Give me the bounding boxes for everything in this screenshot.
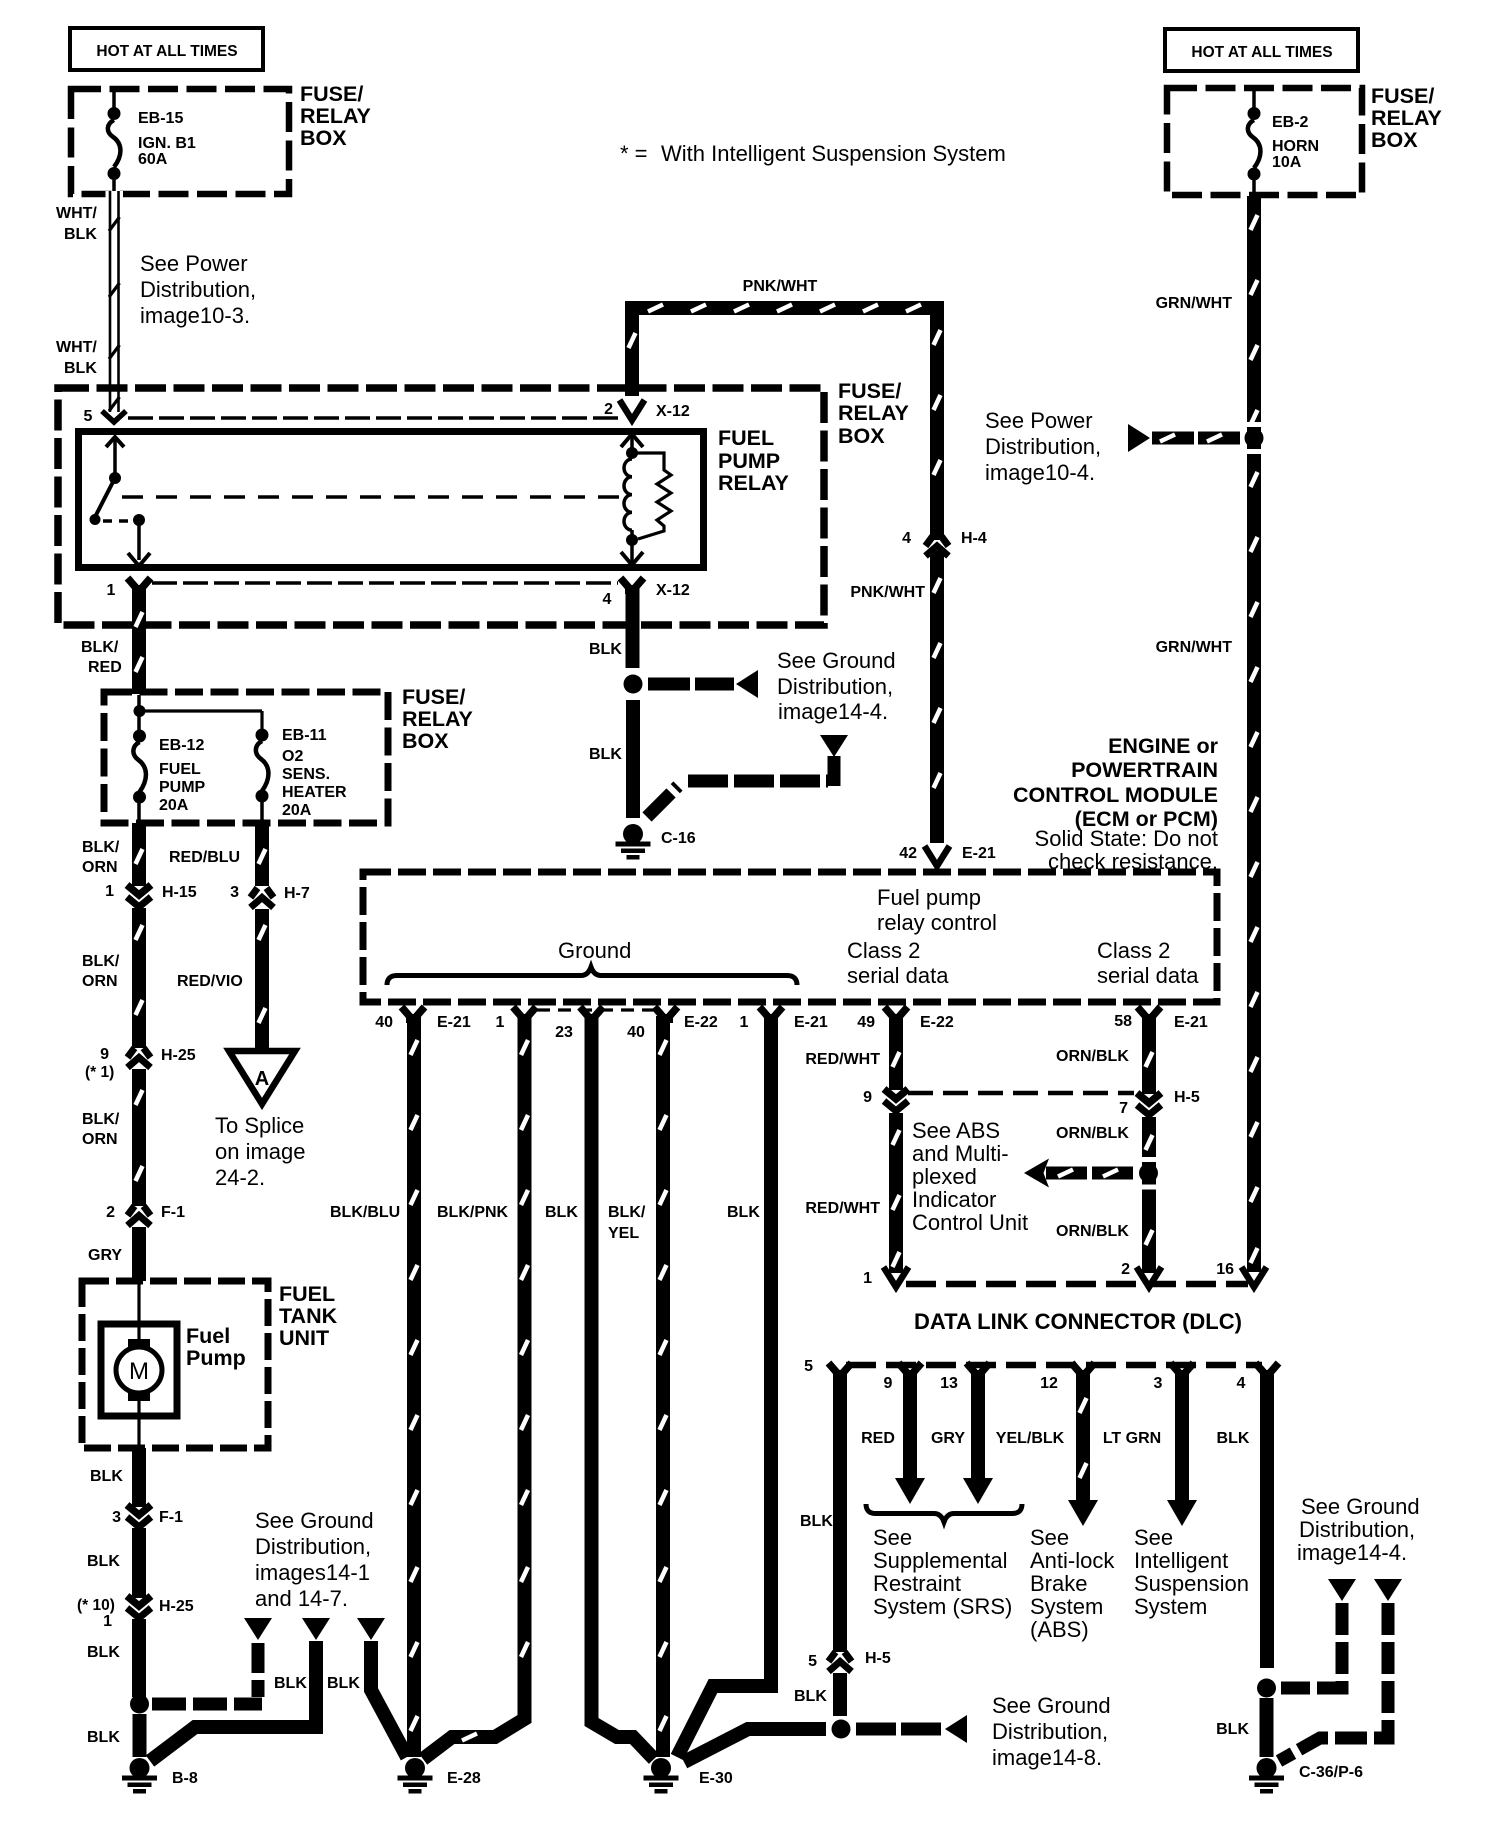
wire GRY (F-1 to fuel tank unit): [132, 1227, 146, 1281]
svg-text:Indicator: Indicator: [912, 1187, 996, 1212]
svg-text:F-1: F-1: [159, 1509, 183, 1526]
connector pin 1 (relay box exit): [128, 578, 138, 589]
fuel tank unit box (dashed): [82, 1281, 268, 1448]
connector F-1 pin 3 (inline, flow down): [127, 1505, 151, 1515]
svg-text:HOT AT ALL TIMES: HOT AT ALL TIMES: [96, 43, 237, 60]
connector pin 2 X-12 (relay box entry): [620, 400, 645, 420]
svg-text:GRY: GRY: [88, 1247, 122, 1264]
svg-text:(* 10): (* 10): [77, 1597, 115, 1614]
svg-text:FUEL: FUEL: [718, 426, 774, 450]
svg-text:PUMP: PUMP: [159, 779, 206, 796]
connector H-5 pin 9 (inline, flow down): [884, 1089, 908, 1099]
svg-text:23: 23: [555, 1024, 573, 1041]
fuse EB-11 O2 SENS. HEATER 20A: [256, 729, 269, 742]
junction node above B-8: [130, 1695, 149, 1714]
svg-text:4: 4: [1237, 1375, 1246, 1392]
svg-text:GRN/WHT: GRN/WHT: [1156, 295, 1233, 312]
svg-text:HOT AT ALL TIMES: HOT AT ALL TIMES: [1191, 44, 1332, 61]
connector F-1 pin 2 (inline, flow up): [128, 1206, 135, 1216]
svg-text:and 14-7.: and 14-7.: [255, 1586, 348, 1611]
svg-text:2: 2: [106, 1204, 115, 1221]
svg-text:DATA LINK CONNECTOR (DLC): DATA LINK CONNECTOR (DLC): [914, 1309, 1242, 1334]
svg-text:IGN. B1: IGN. B1: [138, 135, 196, 152]
svg-text:H-5: H-5: [1174, 1089, 1200, 1106]
svg-text:RED: RED: [861, 1430, 895, 1447]
wire ORN/BLK (ECM pin 58 to H-5): [1142, 1016, 1156, 1094]
svg-text:WHT/: WHT/: [56, 339, 97, 356]
svg-text:Distribution,: Distribution,: [1299, 1517, 1415, 1542]
svg-text:serial data: serial data: [847, 963, 949, 988]
svg-text:BLK: BLK: [545, 1204, 578, 1221]
wire BLK (DLC pin 4 down): [1260, 1374, 1274, 1668]
svg-text:BLK: BLK: [274, 1675, 307, 1692]
svg-text:BLK: BLK: [64, 360, 97, 377]
svg-text:EB-15: EB-15: [138, 110, 183, 127]
connector DLC pin 16 (entry): [1242, 1267, 1267, 1287]
svg-text:relay control: relay control: [877, 910, 997, 935]
svg-text:2: 2: [604, 401, 613, 418]
connector pin 40 E-22 (ECM exit): [655, 1007, 665, 1018]
wire BLK/PNK (ECM pin 1 to E-28): [423, 1016, 525, 1759]
svg-text:E-22: E-22: [684, 1014, 718, 1031]
junction node above C-36/P-6: [1257, 1679, 1276, 1698]
svg-text:See Ground: See Ground: [992, 1693, 1111, 1718]
fuse/relay box (EB-12/EB-11, dashed): [104, 692, 388, 823]
ground B-8: [130, 1758, 150, 1778]
wire WHT/BLK (hollow, fuse EB-15 to relay pin 5): [106, 191, 124, 412]
svg-text:Fuel pump: Fuel pump: [877, 885, 981, 910]
fuse EB-12 FUEL PUMP 20A: [137, 711, 141, 735]
svg-text:image10-3.: image10-3.: [140, 303, 250, 328]
svg-text:H-25: H-25: [161, 1047, 196, 1064]
svg-text:on image: on image: [215, 1139, 306, 1164]
svg-text:58: 58: [1114, 1013, 1132, 1030]
svg-text:check resistance.: check resistance.: [1048, 849, 1218, 874]
wire triangle2 to B-8: [150, 1641, 316, 1761]
svg-text:FUEL: FUEL: [279, 1282, 335, 1306]
svg-text:Distribution,: Distribution,: [985, 434, 1101, 459]
svg-text:BLK: BLK: [589, 641, 622, 658]
wire tap to See Power Distribution (hatched): [1152, 432, 1243, 445]
svg-text:5: 5: [808, 1653, 817, 1670]
svg-text:C-16: C-16: [661, 830, 696, 847]
svg-text:BLK/: BLK/: [81, 639, 119, 656]
svg-text:B-8: B-8: [172, 1770, 198, 1787]
svg-text:PUMP: PUMP: [718, 449, 780, 473]
svg-text:BOX: BOX: [402, 729, 449, 753]
svg-text:GRY: GRY: [931, 1430, 965, 1447]
svg-text:BLK/PNK: BLK/PNK: [437, 1204, 509, 1221]
svg-text:FUSE/: FUSE/: [300, 82, 363, 106]
svg-text:HEATER: HEATER: [282, 784, 347, 801]
svg-text:BOX: BOX: [300, 126, 347, 150]
svg-text:System: System: [1030, 1594, 1103, 1619]
svg-text:RED: RED: [88, 659, 122, 676]
svg-text:1: 1: [105, 883, 114, 900]
wire node at fuse box entry: [137, 695, 141, 712]
connector pin 1 E-21 (ECM exit right): [760, 1007, 770, 1018]
svg-text:Fuel: Fuel: [186, 1324, 230, 1348]
junction node below H-5: [832, 1720, 851, 1739]
connector pin 42 E-21 (ECM entry): [925, 846, 950, 866]
wire RED/VIO (H-7 to splice A): [255, 909, 269, 1052]
connector pin 1 (ECM exit): [513, 1007, 523, 1018]
wire tap to ground distribution 14-4 (dashed): [648, 678, 734, 691]
junction node on ORN/BLK: [1139, 1164, 1158, 1183]
connector H-5 pin 5 (inline, flow up): [829, 1652, 836, 1662]
svg-text:Distribution,: Distribution,: [255, 1534, 371, 1559]
DLC top edge (dashed): [906, 1281, 1248, 1288]
svg-text:BLK: BLK: [1216, 1721, 1249, 1738]
fuel pump motor M: [128, 1339, 150, 1348]
svg-text:E-28: E-28: [447, 1770, 481, 1787]
svg-text:H-7: H-7: [284, 885, 310, 902]
fuse/relay box (top left, dashed): [71, 89, 289, 194]
svg-text:GRN/WHT: GRN/WHT: [1156, 639, 1233, 656]
reference arrow to ground distribution image14-4: [736, 670, 758, 698]
ground E-30: [651, 1758, 671, 1778]
svg-text:BOX: BOX: [1371, 128, 1418, 152]
svg-text:1: 1: [103, 1613, 112, 1630]
svg-text:FUSE/: FUSE/: [1371, 84, 1434, 108]
wire BLK/ORN (H-15 to H-25): [132, 908, 146, 1048]
svg-text:E-30: E-30: [699, 1770, 733, 1787]
svg-text:RED/VIO: RED/VIO: [177, 973, 243, 990]
svg-text:40: 40: [375, 1014, 393, 1031]
wire BLK (fuel tank to F-1): [132, 1448, 146, 1507]
svg-text:BLK/BLU: BLK/BLU: [330, 1204, 400, 1221]
svg-text:13: 13: [940, 1375, 958, 1392]
connector H-4 pin 4 (inline, flow up): [930, 551, 944, 843]
svg-text:(* 1): (* 1): [85, 1064, 114, 1081]
svg-text:4: 4: [603, 591, 612, 608]
wire GRY (DLC pin 13, arrow down): [971, 1374, 985, 1480]
relay inner box (FUEL PUMP RELAY): [79, 432, 704, 568]
svg-text:See Power: See Power: [985, 408, 1093, 433]
svg-text:40: 40: [627, 1024, 645, 1041]
wire junction to E-30: [684, 1729, 826, 1762]
fuel pump motor box: [101, 1324, 177, 1416]
svg-text:O2: O2: [282, 748, 303, 765]
svg-text:See Ground: See Ground: [255, 1508, 374, 1533]
wire LT GRN (DLC pin 3, arrow down): [1175, 1374, 1189, 1502]
svg-text:H-25: H-25: [159, 1598, 194, 1615]
off-page triangle 1 (ground dist): [244, 1618, 272, 1640]
svg-text:BLK: BLK: [64, 226, 97, 243]
svg-text:E-21: E-21: [1174, 1014, 1208, 1031]
svg-text:RED/WHT: RED/WHT: [805, 1051, 880, 1068]
wire BLK/RED (relay pin 1 to fuse box): [132, 586, 146, 694]
svg-text:RELAY: RELAY: [1371, 106, 1442, 130]
connector DLC pin 1 (entry): [884, 1267, 909, 1287]
svg-text:FUSE/: FUSE/: [402, 685, 465, 709]
DLC bottom edge (dashed): [846, 1362, 1262, 1369]
connector pin 58 E-21 (ECM exit): [1138, 1007, 1148, 1018]
reference arrow to power distribution image10-4: [1128, 424, 1150, 452]
svg-text:1: 1: [496, 1014, 505, 1031]
svg-text:Intelligent: Intelligent: [1134, 1548, 1228, 1573]
svg-text:7: 7: [1119, 1100, 1128, 1117]
svg-text:Distribution,: Distribution,: [140, 277, 256, 302]
internal wire to EB-11: [139, 709, 262, 712]
svg-text:H-5: H-5: [865, 1650, 891, 1667]
svg-text:E-21: E-21: [962, 845, 996, 862]
svg-text:Brake: Brake: [1030, 1571, 1087, 1596]
svg-text:BLK: BLK: [87, 1729, 120, 1746]
svg-text:serial data: serial data: [1097, 963, 1199, 988]
wire BLK (H-25 to junction): [132, 1619, 146, 1697]
connector pin 23 (ECM exit): [580, 1007, 590, 1018]
wire BLK (F-1 to H-25): [132, 1528, 146, 1598]
svg-text:* =: * =: [620, 141, 648, 166]
svg-text:ORN/BLK: ORN/BLK: [1056, 1125, 1129, 1142]
connector DLC pin 12 (exit): [1072, 1363, 1082, 1374]
svg-text:16: 16: [1216, 1261, 1234, 1278]
svg-text:24-2.: 24-2.: [215, 1165, 265, 1190]
svg-text:See: See: [1134, 1525, 1173, 1550]
svg-text:System: System: [1134, 1594, 1207, 1619]
junction node on GRN/WHT at power distribution tap: [1245, 429, 1264, 448]
svg-text:H-4: H-4: [961, 530, 987, 547]
svg-text:1: 1: [107, 582, 116, 599]
svg-text:image14-8.: image14-8.: [992, 1745, 1102, 1770]
label box HOT AT ALL TIMES (right): [1165, 29, 1358, 71]
svg-text:RELAY: RELAY: [402, 707, 473, 731]
wire BLK (junction to ground C-36/P-6): [1260, 1698, 1274, 1757]
svg-text:F-1: F-1: [161, 1204, 185, 1221]
svg-text:CONTROL MODULE: CONTROL MODULE: [1013, 783, 1218, 807]
dashed wire triangle4 to junction: [1281, 1603, 1342, 1688]
svg-text:ENGINE or: ENGINE or: [1108, 734, 1219, 758]
svg-text:1: 1: [740, 1014, 749, 1031]
connector H-5 pin 7 (inline, flow down): [1137, 1093, 1161, 1103]
svg-text:ORN/BLK: ORN/BLK: [1056, 1223, 1129, 1240]
svg-text:RELAY: RELAY: [300, 104, 371, 128]
wire tap to ground distribution 14-8 (dashed): [856, 1723, 943, 1736]
svg-text:System (SRS): System (SRS): [873, 1594, 1012, 1619]
svg-text:Ground: Ground: [558, 938, 631, 963]
arrow to ABS and multiplexed indicator control unit: [1024, 1159, 1049, 1188]
svg-text:3: 3: [1154, 1375, 1163, 1392]
svg-text:image14-4.: image14-4.: [1297, 1540, 1407, 1565]
connector H-7 pin 3 (inline, flow up): [251, 888, 258, 898]
wire into motor: [137, 1281, 140, 1342]
ground C-36/P-6: [1257, 1758, 1277, 1778]
connector H-25 pin 9 (inline, flow up): [128, 1048, 135, 1058]
wire BLK (ECM pin 1/E-21 to E-30): [677, 1016, 771, 1757]
connector DLC pin 2 (entry): [1137, 1267, 1162, 1287]
svg-text:See Ground: See Ground: [1301, 1494, 1420, 1519]
fuse EB-15 IGN. B1 60A: [112, 92, 116, 113]
svg-text:4: 4: [902, 530, 911, 547]
svg-text:With Intelligent Suspension Sy: With Intelligent Suspension System: [661, 141, 1006, 166]
svg-text:20A: 20A: [282, 802, 312, 819]
svg-text:49: 49: [857, 1014, 875, 1031]
wire BLK/YEL (ECM pin 40/E-22 to E-30): [656, 1016, 670, 1757]
svg-text:WHT/: WHT/: [56, 205, 97, 222]
svg-text:Solid State: Do not: Solid State: Do not: [1035, 826, 1218, 851]
svg-text:ORN: ORN: [82, 859, 118, 876]
svg-text:1: 1: [863, 1270, 872, 1287]
svg-text:A: A: [255, 1068, 269, 1090]
svg-text:See Ground: See Ground: [777, 648, 896, 673]
connector sub-line (pins 23/40, dashed): [537, 1008, 654, 1011]
wire BLK (junction down to ground C-16): [626, 700, 640, 818]
svg-text:BLK: BLK: [589, 746, 622, 763]
svg-text:ORN: ORN: [82, 973, 118, 990]
ground C-16: [623, 824, 643, 844]
wire RED (DLC pin 9, arrow down): [903, 1374, 917, 1480]
svg-text:E-22: E-22: [920, 1014, 954, 1031]
svg-text:UNIT: UNIT: [279, 1326, 329, 1350]
connector H-15 pin 1 (inline, flow down): [127, 885, 151, 895]
svg-text:20A: 20A: [159, 797, 189, 814]
svg-text:Supplemental: Supplemental: [873, 1548, 1008, 1573]
svg-text:BLK: BLK: [800, 1513, 833, 1530]
svg-text:To Splice: To Splice: [215, 1113, 304, 1138]
connector DLC pin 5 (exit): [829, 1363, 839, 1374]
connector line X-12 (bottom, dashed): [152, 581, 618, 585]
connector DLC pin 13 (exit): [967, 1363, 977, 1374]
svg-text:9: 9: [884, 1375, 893, 1392]
svg-text:60A: 60A: [138, 151, 168, 168]
wire RED/WHT (H-5 to DLC pin 1): [889, 1113, 903, 1273]
wire PNK/WHT (relay pin 2 up, across, down to ECM pin 42): [632, 308, 937, 540]
svg-text:PNK/WHT: PNK/WHT: [850, 584, 925, 601]
dashed branch from C-16 to down-arrow: [647, 786, 678, 817]
svg-text:X-12: X-12: [656, 582, 690, 599]
svg-text:Suspension: Suspension: [1134, 1571, 1249, 1596]
svg-text:BLK: BLK: [87, 1553, 120, 1570]
relay switch arm and contacts: [106, 437, 124, 447]
connector line H-5 (dashed): [908, 1091, 1134, 1096]
wire BLK (H-5 to junction): [833, 1673, 847, 1716]
svg-text:TANK: TANK: [279, 1304, 338, 1328]
fuse/relay box (top right, dashed): [1167, 88, 1362, 195]
off-page triangle (ground dist 14-4): [820, 735, 848, 757]
svg-text:See: See: [873, 1525, 912, 1550]
svg-text:BLK: BLK: [1217, 1430, 1250, 1447]
label box HOT AT ALL TIMES (left): [70, 28, 263, 70]
svg-text:10A: 10A: [1272, 154, 1302, 171]
svg-text:BOX: BOX: [838, 424, 885, 448]
svg-text:See: See: [1030, 1525, 1069, 1550]
connector H-25 pin 1 (inline, flow down): [127, 1596, 151, 1606]
brace for ground pins: [387, 967, 797, 985]
connector DLC pin 3 (exit): [1171, 1363, 1181, 1374]
svg-text:See Power: See Power: [140, 251, 248, 276]
svg-text:RELAY: RELAY: [838, 401, 909, 425]
dashed wire triangle1 to junction: [252, 1643, 265, 1697]
svg-text:RELAY: RELAY: [718, 471, 789, 495]
ECM box (dashed): [363, 872, 1217, 1002]
svg-text:EB-12: EB-12: [159, 737, 204, 754]
wire BLK/ORN (fuse EB-12 to H-15): [132, 823, 146, 886]
wire GRN/WHT (fuse EB-2 down to DLC pin 16): [1247, 196, 1261, 1272]
svg-text:BLK: BLK: [90, 1468, 123, 1485]
svg-text:12: 12: [1040, 1375, 1058, 1392]
svg-text:H-15: H-15: [162, 884, 197, 901]
svg-text:RED/WHT: RED/WHT: [805, 1200, 880, 1217]
wire BLK (DLC pin 5 to H-5): [833, 1374, 847, 1652]
reference arrow to ground distribution image14-8: [945, 1715, 967, 1743]
svg-text:Distribution,: Distribution,: [777, 674, 893, 699]
svg-text:9: 9: [863, 1089, 872, 1106]
svg-text:M: M: [129, 1358, 149, 1385]
svg-text:See ABS: See ABS: [912, 1118, 1000, 1143]
svg-text:E-21: E-21: [794, 1014, 828, 1031]
svg-text:Anti-lock: Anti-lock: [1030, 1548, 1115, 1573]
svg-text:Control Unit: Control Unit: [912, 1210, 1028, 1235]
svg-text:2: 2: [1121, 1261, 1130, 1278]
svg-text:FUSE/: FUSE/: [838, 379, 901, 403]
fuse EB-2 HORN 10A: [1252, 91, 1256, 112]
svg-text:42: 42: [899, 845, 917, 862]
svg-text:FUEL: FUEL: [159, 761, 201, 778]
connector DLC pin 4 (exit): [1256, 1363, 1266, 1374]
off-page triangle 5 (ground dist 14-4): [1374, 1579, 1402, 1601]
svg-text:HORN: HORN: [1272, 138, 1319, 155]
wire RED/BLU (fuse EB-11 to H-7): [255, 823, 269, 886]
svg-text:PNK/WHT: PNK/WHT: [743, 278, 818, 295]
connector pin 5 (relay box entry): [102, 411, 126, 422]
svg-text:YEL/BLK: YEL/BLK: [996, 1430, 1065, 1447]
off-page triangle 4 (ground dist 14-4): [1328, 1579, 1356, 1601]
connector DLC pin 9 (exit): [899, 1363, 909, 1374]
svg-text:image14-4.: image14-4.: [778, 699, 888, 724]
wire tap to ABS (hatched): [1046, 1167, 1133, 1180]
svg-text:YEL: YEL: [608, 1225, 639, 1242]
svg-text:Class 2: Class 2: [1097, 938, 1170, 963]
wire BLK/BLU (ECM pin 40 to E-28): [407, 1016, 421, 1757]
junction node on BLK wire: [624, 675, 643, 694]
wire YEL/BLK (DLC pin 12, arrow down): [1076, 1374, 1090, 1502]
svg-text:5: 5: [804, 1358, 813, 1375]
svg-text:BLK/: BLK/: [82, 839, 120, 856]
svg-text:Pump: Pump: [186, 1346, 246, 1370]
svg-text:BLK/: BLK/: [608, 1204, 646, 1221]
svg-text:Restraint: Restraint: [873, 1571, 961, 1596]
svg-text:3: 3: [112, 1509, 121, 1526]
svg-text:image10-4.: image10-4.: [985, 460, 1095, 485]
wire RED/WHT (ECM pin 49 to H-5): [889, 1016, 903, 1090]
svg-text:RED/BLU: RED/BLU: [169, 849, 240, 866]
svg-text:X-12: X-12: [656, 403, 690, 420]
svg-text:images14-1: images14-1: [255, 1560, 370, 1585]
svg-text:5: 5: [84, 408, 93, 425]
relay coil with parallel resistor: [621, 434, 643, 447]
svg-text:C-36/P-6: C-36/P-6: [1299, 1764, 1363, 1781]
svg-text:BLK: BLK: [794, 1688, 827, 1705]
ground E-28: [405, 1758, 425, 1778]
svg-text:BLK: BLK: [727, 1204, 760, 1221]
svg-text:SENS.: SENS.: [282, 766, 330, 783]
svg-text:POWERTRAIN: POWERTRAIN: [1071, 758, 1218, 782]
connector pin 40 E-21 (ECM exit): [402, 1007, 412, 1018]
svg-text:BLK: BLK: [87, 1644, 120, 1661]
relay mechanical link (dashed): [122, 495, 626, 499]
svg-text:BLK/: BLK/: [82, 1111, 120, 1128]
wire out of motor: [137, 1401, 140, 1448]
svg-text:EB-2: EB-2: [1272, 114, 1309, 131]
svg-text:(ABS): (ABS): [1030, 1617, 1089, 1642]
svg-text:9: 9: [100, 1046, 109, 1063]
svg-text:Class 2: Class 2: [847, 938, 920, 963]
svg-text:ORN/BLK: ORN/BLK: [1056, 1048, 1129, 1065]
wire BLK (relay pin 4 down): [626, 586, 640, 668]
connector pin 49 E-22 (ECM exit): [885, 1007, 895, 1018]
fuse/relay box (relay, dashed): [58, 388, 824, 625]
